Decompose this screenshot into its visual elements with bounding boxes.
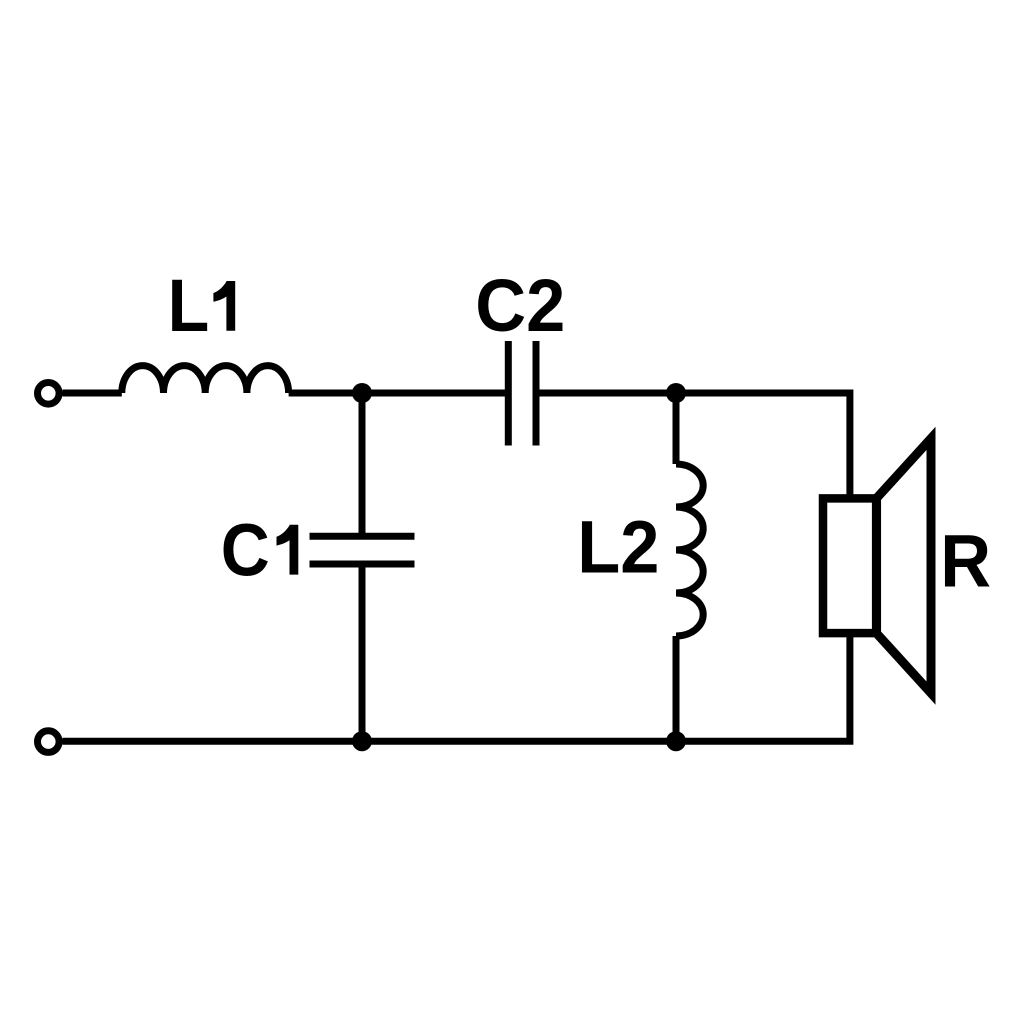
wire L1 to C2 [289, 390, 505, 397]
label C1 [221, 510, 299, 592]
wire C1 to bottom rail [359, 564, 366, 741]
inductor L1 [122, 366, 289, 393]
wire node A down to C1 [359, 393, 366, 536]
wire speaker to bottom rail [63, 633, 850, 741]
svg-text:L: L [168, 266, 210, 348]
input terminal bottom [38, 731, 60, 753]
svg-text:C: C [221, 510, 270, 592]
speaker box R [823, 498, 877, 633]
node A top junction [352, 383, 372, 403]
node B bottom junction [666, 731, 686, 751]
svg-text:R: R [940, 521, 991, 603]
wire C2 to corner and down to speaker [540, 393, 850, 498]
node A bottom junction [352, 731, 372, 751]
speaker horn R [876, 438, 931, 693]
inductor L2 [676, 464, 703, 636]
capacitor C2 [508, 341, 536, 446]
label L1 [168, 266, 236, 348]
node B top junction [666, 383, 686, 403]
svg-text:L2: L2 [577, 507, 659, 589]
wire L2 to bottom rail [673, 636, 680, 741]
input terminal top [38, 383, 60, 405]
capacitor C1 [310, 536, 415, 564]
wire node B down to L2 [673, 393, 680, 464]
svg-text:C2: C2 [475, 265, 565, 347]
wire top-left [63, 390, 122, 397]
